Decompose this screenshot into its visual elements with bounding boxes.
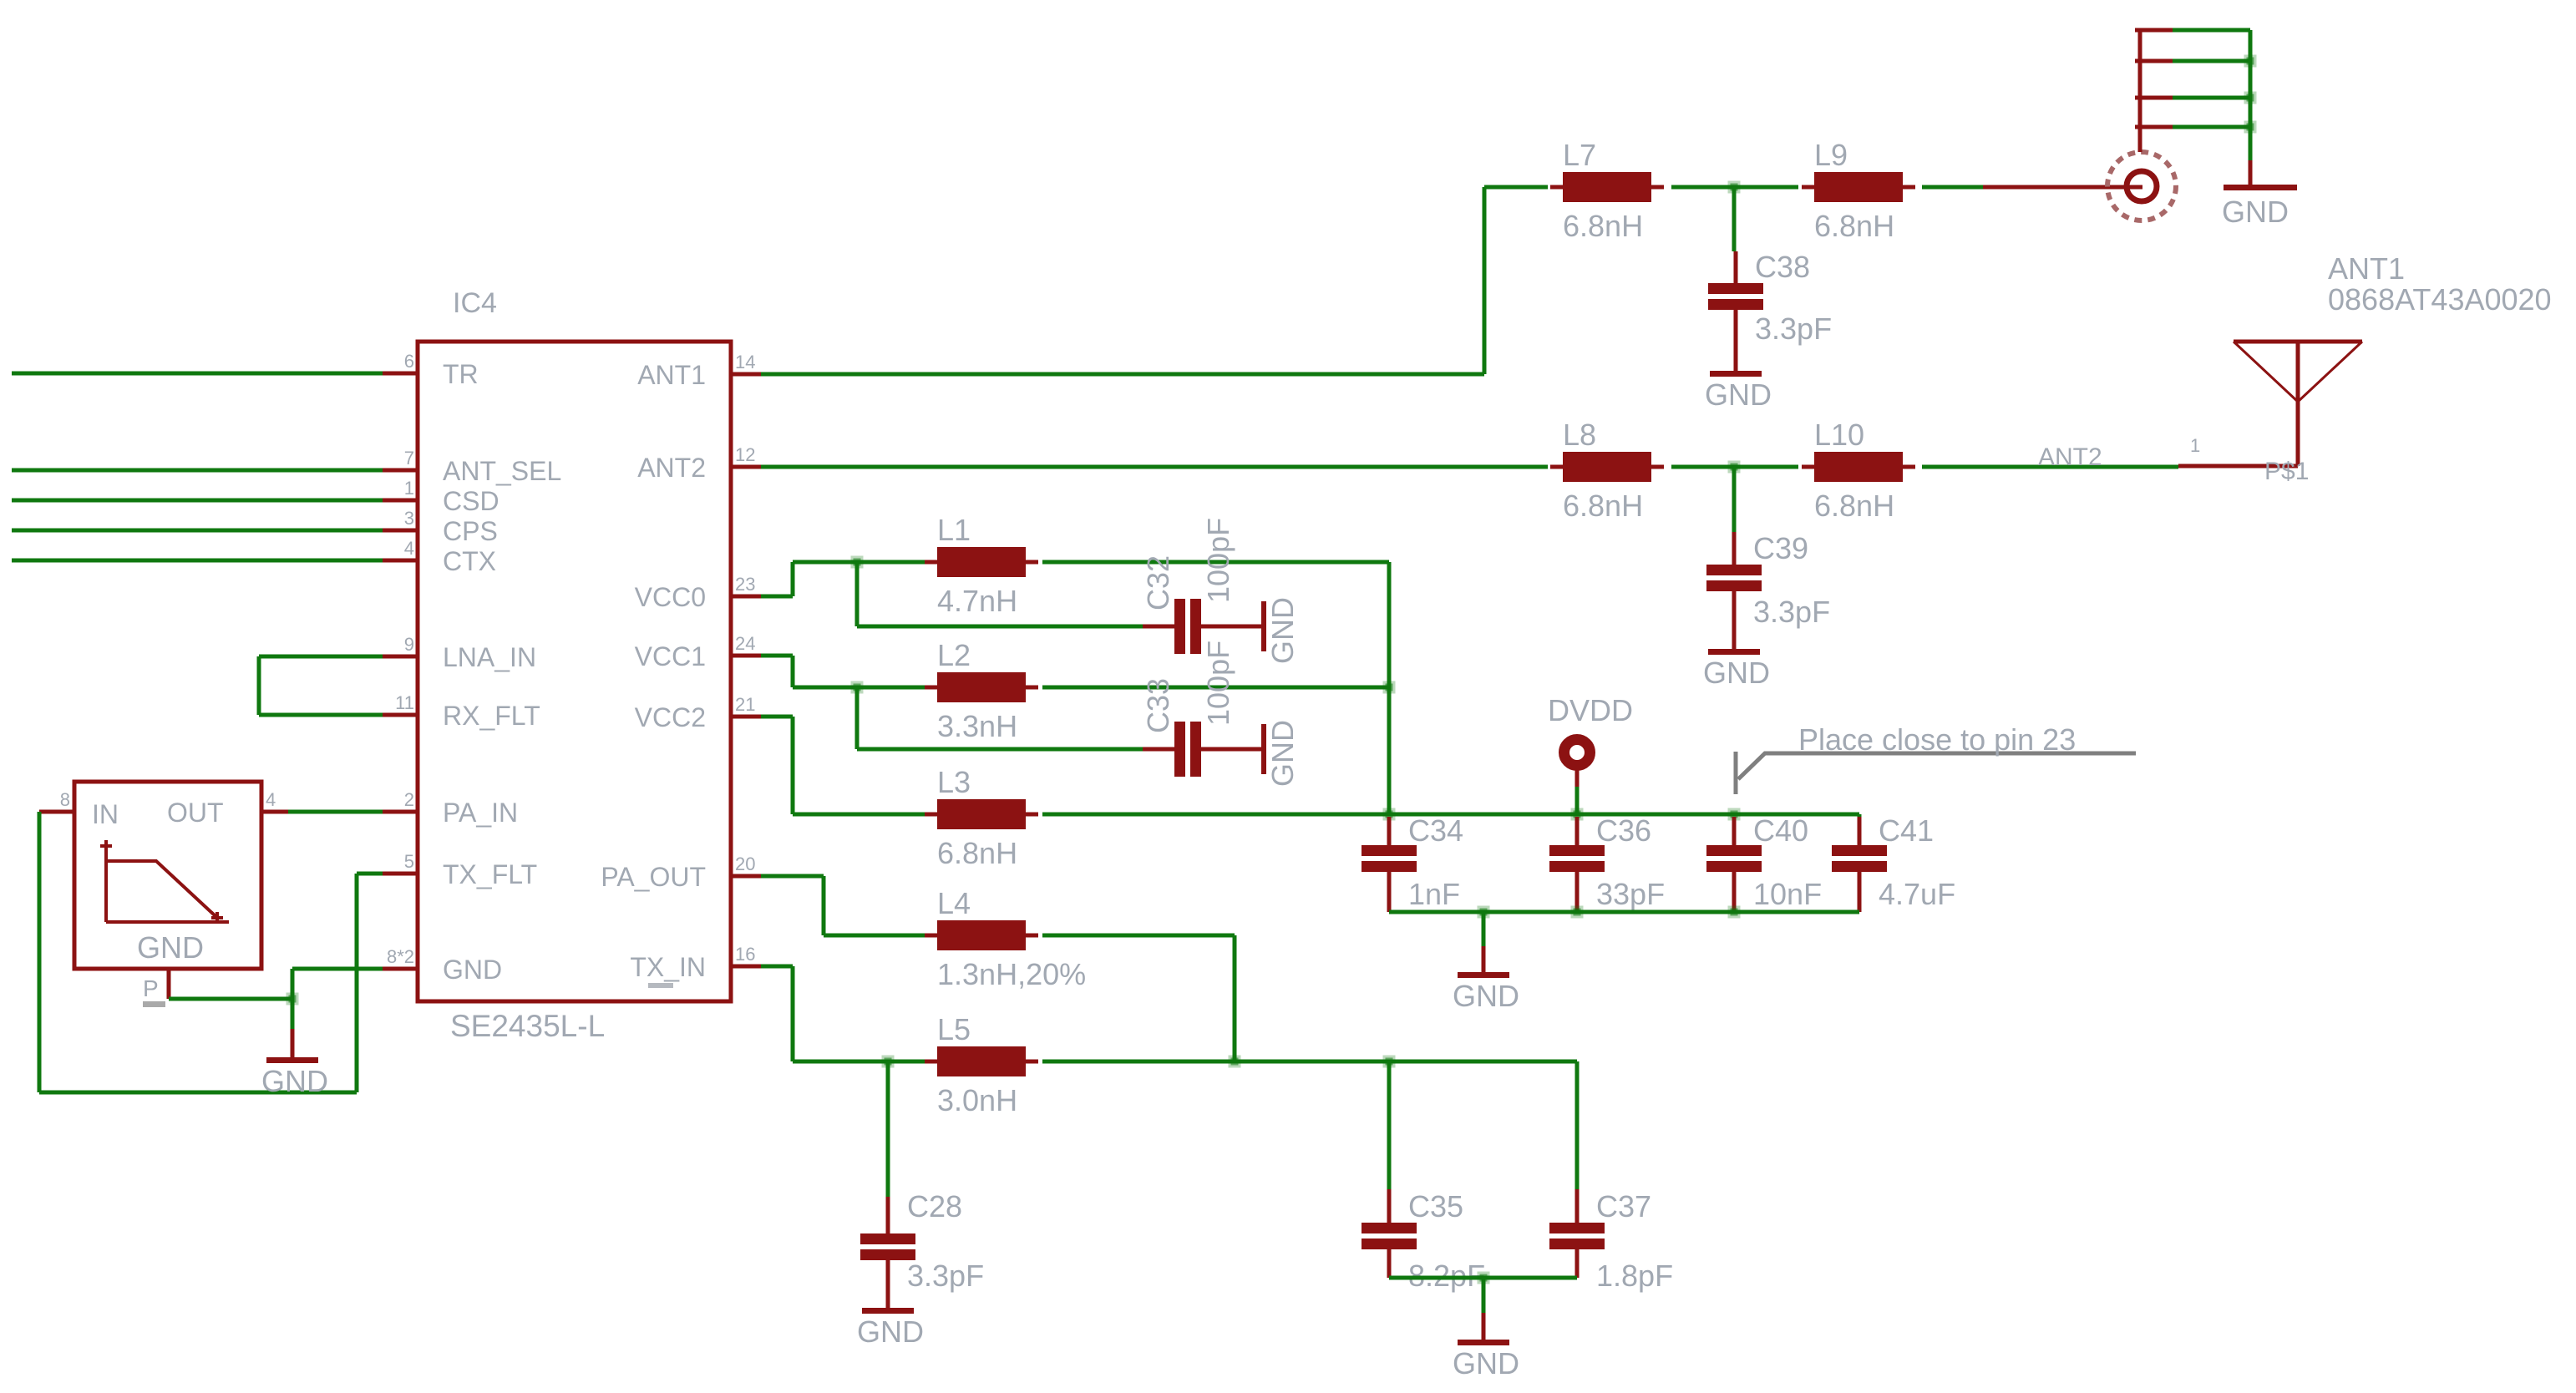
svg-text:CSD: CSD [443, 486, 499, 516]
svg-text:1: 1 [404, 478, 414, 499]
svg-text:L7: L7 [1563, 138, 1596, 172]
svg-text:RX_FLT: RX_FLT [443, 701, 540, 731]
svg-text:L2: L2 [937, 638, 971, 672]
svg-text:10nF: 10nF [1753, 877, 1822, 911]
svg-text:VCC2: VCC2 [635, 702, 706, 732]
svg-text:4: 4 [404, 538, 414, 559]
svg-text:GND: GND [443, 955, 502, 985]
svg-text:7: 7 [404, 448, 414, 469]
svg-text:4.7nH: 4.7nH [937, 584, 1017, 618]
svg-text:1.3nH,20%: 1.3nH,20% [937, 957, 1086, 991]
svg-text:LNA_IN: LNA_IN [443, 642, 536, 672]
svg-text:3.3pF: 3.3pF [1755, 312, 1832, 346]
svg-text:ANT_SEL: ANT_SEL [443, 456, 561, 486]
svg-text:L4: L4 [937, 886, 971, 920]
svg-text:6.8nH: 6.8nH [1814, 489, 1894, 523]
svg-text:6.8nH: 6.8nH [1563, 489, 1643, 523]
svg-text:P: P [143, 975, 159, 1001]
svg-text:L9: L9 [1814, 138, 1848, 172]
svg-text:CPS: CPS [443, 516, 498, 546]
svg-text:3.0nH: 3.0nH [937, 1083, 1017, 1117]
svg-text:8: 8 [60, 789, 70, 810]
svg-text:PA_IN: PA_IN [443, 798, 518, 828]
svg-text:GND: GND [261, 1064, 328, 1098]
svg-text:2: 2 [404, 789, 414, 810]
svg-text:5: 5 [404, 851, 414, 872]
svg-text:24: 24 [735, 633, 755, 654]
svg-text:C41: C41 [1879, 813, 1934, 848]
svg-text:L3: L3 [937, 765, 971, 799]
svg-text:21: 21 [735, 694, 755, 715]
svg-text:C40: C40 [1753, 813, 1808, 848]
svg-text:GND: GND [1453, 979, 1519, 1013]
svg-text:6.8nH: 6.8nH [1563, 209, 1643, 243]
svg-text:GND: GND [1703, 656, 1770, 690]
svg-text:GND: GND [1705, 377, 1772, 412]
svg-text:P$1: P$1 [2264, 458, 2309, 485]
svg-text:GND: GND [1453, 1346, 1519, 1380]
svg-text:C32: C32 [1141, 555, 1175, 610]
svg-text:PA_OUT: PA_OUT [601, 862, 706, 892]
svg-text:TR: TR [443, 359, 479, 389]
svg-text:8*2: 8*2 [387, 946, 414, 967]
svg-text:C33: C33 [1141, 678, 1175, 733]
svg-text:OUT: OUT [167, 798, 224, 828]
svg-text:6.8nH: 6.8nH [1814, 209, 1894, 243]
svg-text:C38: C38 [1755, 250, 1810, 284]
svg-text:1: 1 [2190, 435, 2200, 456]
svg-text:ANT2: ANT2 [2038, 443, 2102, 471]
svg-text:C35: C35 [1408, 1189, 1463, 1223]
svg-text:C37: C37 [1596, 1189, 1651, 1223]
svg-text:1nF: 1nF [1408, 877, 1460, 911]
svg-text:ANT1: ANT1 [637, 360, 706, 390]
svg-text:C39: C39 [1753, 531, 1808, 565]
svg-text:IC4: IC4 [453, 287, 497, 319]
svg-text:14: 14 [735, 352, 755, 372]
svg-text:L5: L5 [937, 1012, 971, 1046]
svg-text:4.7uF: 4.7uF [1879, 877, 1955, 911]
svg-text:CTX: CTX [443, 546, 496, 576]
svg-text:6.8nH: 6.8nH [937, 836, 1017, 870]
svg-text:GND: GND [2222, 195, 2289, 229]
svg-text:23: 23 [735, 574, 755, 595]
svg-text:16: 16 [735, 944, 755, 965]
svg-text:33pF: 33pF [1596, 877, 1665, 911]
svg-text:GND: GND [1265, 597, 1300, 664]
svg-text:GND: GND [137, 930, 204, 965]
svg-text:ANT2: ANT2 [637, 453, 706, 483]
svg-text:20: 20 [735, 854, 755, 874]
svg-text:C34: C34 [1408, 813, 1463, 848]
svg-text:3.3pF: 3.3pF [907, 1259, 984, 1293]
svg-text:GND: GND [857, 1314, 924, 1349]
svg-text:12: 12 [735, 444, 755, 465]
svg-text:100pF: 100pF [1201, 641, 1235, 726]
svg-text:Place close to pin 23: Place close to pin 23 [1798, 722, 2076, 757]
svg-text:4: 4 [266, 789, 276, 810]
svg-text:TX_FLT: TX_FLT [443, 859, 537, 889]
svg-text:VCC0: VCC0 [635, 582, 706, 612]
svg-text:C36: C36 [1596, 813, 1651, 848]
svg-text:9: 9 [404, 634, 414, 655]
svg-text:3.3pF: 3.3pF [1753, 595, 1830, 629]
svg-text:DVDD: DVDD [1548, 693, 1633, 727]
svg-text:ANT1: ANT1 [2328, 251, 2405, 286]
svg-text:VCC1: VCC1 [635, 641, 706, 671]
svg-text:L1: L1 [937, 513, 971, 547]
svg-text:0868AT43A0020: 0868AT43A0020 [2328, 282, 2552, 317]
svg-text:3: 3 [404, 508, 414, 529]
svg-text:L8: L8 [1563, 418, 1596, 452]
svg-text:C28: C28 [907, 1189, 962, 1223]
svg-text:GND: GND [1265, 720, 1300, 787]
svg-text:L10: L10 [1814, 418, 1864, 452]
svg-text:3.3nH: 3.3nH [937, 709, 1017, 743]
svg-text:6: 6 [404, 351, 414, 372]
svg-text:1.8pF: 1.8pF [1596, 1259, 1673, 1293]
svg-text:IN: IN [92, 799, 119, 829]
svg-text:11: 11 [395, 692, 414, 713]
svg-text:SE2435L-L: SE2435L-L [450, 1009, 605, 1043]
svg-text:100pF: 100pF [1201, 518, 1235, 603]
svg-text:TX_IN: TX_IN [630, 952, 706, 982]
